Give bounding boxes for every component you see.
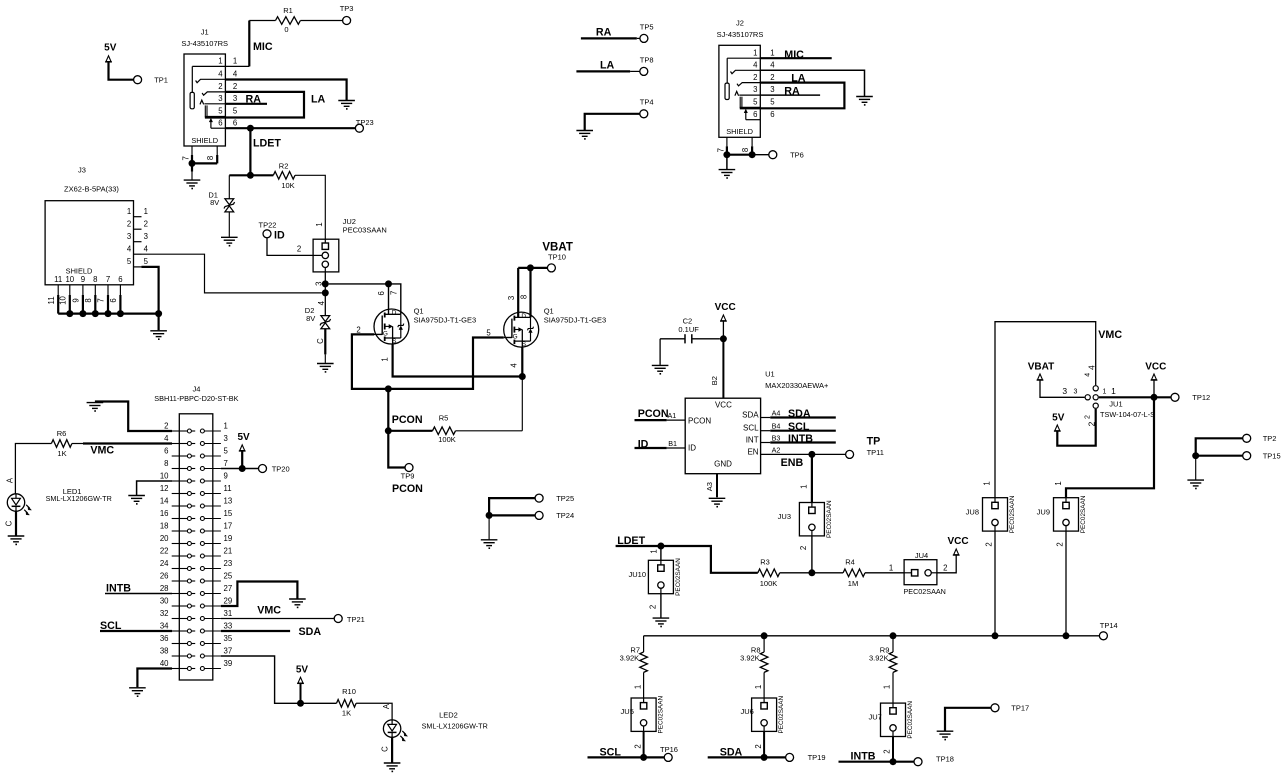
svg-text:1: 1 bbox=[770, 48, 774, 57]
pin 3 J3 bbox=[134, 241, 142, 243]
svg-text:VCC: VCC bbox=[715, 400, 732, 409]
wire R9 to JU7 bbox=[892, 672, 894, 703]
svg-text:3: 3 bbox=[315, 282, 324, 286]
connector JU1 TSW-104-07-L-S bbox=[1093, 386, 1098, 391]
junction JU2 pin3 bbox=[322, 280, 329, 287]
test point TP12 bbox=[1171, 393, 1179, 401]
pin 20 J4 bbox=[172, 543, 188, 545]
pin 6 J4 bbox=[172, 455, 188, 457]
svg-text:LDET: LDET bbox=[253, 138, 281, 150]
test point TP16 bbox=[664, 753, 672, 761]
svg-text:J4: J4 bbox=[192, 385, 200, 394]
svg-text:TP23: TP23 bbox=[356, 118, 374, 127]
wire 5V to R10 node bbox=[300, 683, 302, 703]
svg-text:TP16: TP16 bbox=[660, 745, 678, 754]
pin 15 J4 bbox=[200, 517, 204, 521]
svg-text:TP20: TP20 bbox=[272, 464, 290, 473]
test point TP4 bbox=[640, 110, 648, 118]
diode D1 8V TVS bbox=[225, 199, 234, 205]
wire J2 pin4 to ground bbox=[760, 70, 864, 96]
wire PCON to TP9 bbox=[388, 431, 405, 468]
svg-text:5: 5 bbox=[224, 446, 229, 455]
wire R10 to LED2 bbox=[356, 703, 392, 720]
pin 9 J4 bbox=[200, 479, 204, 483]
svg-text:6: 6 bbox=[218, 118, 222, 127]
wire J2 pin1 MIC bbox=[760, 57, 831, 59]
wire to ground TP24 bbox=[488, 515, 490, 539]
svg-text:2: 2 bbox=[633, 744, 642, 748]
svg-text:3: 3 bbox=[507, 296, 516, 300]
svg-text:3: 3 bbox=[224, 434, 228, 443]
svg-text:2: 2 bbox=[883, 749, 892, 753]
wire J4 pin2 to ground bbox=[95, 402, 172, 432]
svg-text:0: 0 bbox=[284, 25, 288, 34]
svg-text:C: C bbox=[316, 338, 325, 344]
svg-text:TP11: TP11 bbox=[867, 448, 884, 457]
junction R3/R4/JU3 bbox=[808, 569, 815, 576]
wire J4 pin34 SCL bbox=[100, 630, 172, 632]
svg-text:13: 13 bbox=[224, 496, 233, 505]
pin 35 J4 bbox=[200, 642, 204, 646]
pin 2 J4 bbox=[172, 430, 188, 432]
svg-text:7: 7 bbox=[716, 148, 725, 152]
svg-text:1: 1 bbox=[381, 357, 390, 361]
wire JU9 pin2 to VCC bus bbox=[1065, 531, 1067, 636]
svg-text:29: 29 bbox=[224, 596, 233, 605]
svg-text:2: 2 bbox=[754, 744, 763, 748]
svg-text:37: 37 bbox=[224, 646, 233, 655]
test point TP18 bbox=[914, 758, 922, 766]
svg-text:B4: B4 bbox=[772, 422, 781, 431]
svg-text:28: 28 bbox=[160, 584, 169, 593]
resistor R7 3.92K bbox=[640, 652, 648, 672]
svg-text:9: 9 bbox=[81, 275, 85, 284]
svg-text:21: 21 bbox=[224, 546, 233, 555]
ground J4 pin29 bbox=[289, 598, 306, 600]
wire JU8 pin2 to VCC bus bbox=[994, 531, 996, 636]
wire junction to R2 bbox=[250, 174, 273, 176]
svg-text:8: 8 bbox=[164, 459, 168, 468]
svg-text:1: 1 bbox=[1103, 388, 1107, 395]
svg-text:3: 3 bbox=[233, 94, 237, 103]
pin 16 J4 bbox=[172, 518, 188, 520]
svg-text:2: 2 bbox=[233, 82, 237, 91]
junction TP24/ground bbox=[486, 512, 493, 519]
svg-text:26: 26 bbox=[160, 571, 169, 580]
svg-text:B3: B3 bbox=[772, 433, 781, 442]
wire bus to R8 bbox=[763, 636, 765, 652]
svg-text:SDA: SDA bbox=[742, 410, 759, 419]
test point TP25 bbox=[535, 494, 543, 502]
wire J1 pin1 to R1 bbox=[225, 65, 249, 67]
resistor R8 3.92K bbox=[760, 652, 768, 672]
pin 26 J4 bbox=[172, 580, 188, 582]
svg-text:4: 4 bbox=[1084, 373, 1091, 377]
svg-text:PEC03SAAN: PEC03SAAN bbox=[343, 226, 387, 235]
svg-text:7: 7 bbox=[224, 459, 228, 468]
wire bus to R9 bbox=[892, 636, 894, 652]
pin 22 J4 bbox=[172, 555, 188, 557]
svg-text:VCC: VCC bbox=[715, 302, 736, 313]
svg-text:36: 36 bbox=[160, 634, 169, 643]
svg-text:1: 1 bbox=[753, 48, 757, 57]
svg-text:5: 5 bbox=[127, 257, 132, 266]
wire LDET down bbox=[249, 128, 251, 175]
svg-text:PCON: PCON bbox=[392, 483, 423, 495]
wire JU5 pin2 to SCL net bbox=[643, 731, 645, 757]
svg-text:32: 32 bbox=[160, 609, 169, 618]
wire J3 shield bus bbox=[58, 313, 158, 315]
svg-text:2: 2 bbox=[648, 605, 657, 609]
svg-text:2: 2 bbox=[297, 244, 301, 253]
svg-text:TP5: TP5 bbox=[640, 22, 654, 31]
wire TP4 to ground bbox=[585, 114, 640, 130]
wire JU6 pin2 to SDA net bbox=[763, 731, 765, 757]
wire INTB to TP18 bbox=[839, 761, 915, 763]
svg-text:25: 25 bbox=[224, 571, 233, 580]
test point TP9 bbox=[405, 464, 413, 472]
svg-text:TP22: TP22 bbox=[259, 221, 277, 230]
svg-text:SCL: SCL bbox=[788, 421, 810, 433]
wire VCC to U1 bbox=[722, 339, 724, 398]
svg-text:2: 2 bbox=[799, 546, 808, 550]
pin 1 J3 bbox=[134, 216, 142, 218]
pin 33 J4 bbox=[200, 629, 204, 633]
svg-text:TP1: TP1 bbox=[154, 75, 168, 84]
svg-text:VCC: VCC bbox=[947, 536, 968, 547]
svg-text:6: 6 bbox=[233, 118, 237, 127]
svg-text:5: 5 bbox=[753, 98, 758, 107]
svg-text:ZX62-B-5PA(33): ZX62-B-5PA(33) bbox=[64, 185, 119, 194]
wire RA to TP5 bbox=[581, 37, 637, 39]
svg-text:LA: LA bbox=[600, 60, 615, 72]
wire 5V to TP1 bbox=[109, 61, 134, 79]
svg-text:VBAT: VBAT bbox=[1028, 362, 1054, 373]
svg-text:2: 2 bbox=[943, 563, 947, 572]
wire U1 SCL out bbox=[761, 430, 771, 432]
junction J3 shield bbox=[79, 310, 86, 317]
jumper JU3 PEC02SAAN bbox=[799, 503, 824, 536]
svg-text:C: C bbox=[5, 520, 14, 526]
ground TP2/TP15 bbox=[1187, 479, 1204, 481]
svg-text:JU5: JU5 bbox=[621, 707, 634, 716]
wire J4 pin33 SDA bbox=[221, 630, 290, 632]
wire D2 to ground bbox=[324, 329, 326, 355]
wire TP25 bbox=[489, 498, 535, 515]
svg-text:7: 7 bbox=[106, 275, 110, 284]
ground J1 shield bbox=[184, 179, 201, 181]
junction VCC/TP12 bbox=[1151, 394, 1158, 401]
power 5V (R10) bbox=[298, 677, 303, 683]
svg-text:3.92K: 3.92K bbox=[869, 654, 889, 663]
pin 12 J4 bbox=[172, 493, 188, 495]
svg-text:TP10: TP10 bbox=[548, 252, 566, 261]
svg-text:1K: 1K bbox=[342, 709, 351, 718]
svg-text:15: 15 bbox=[224, 509, 233, 518]
wire PCON to U1 pin A1 bbox=[635, 419, 667, 421]
svg-text:35: 35 bbox=[224, 634, 233, 643]
svg-text:38: 38 bbox=[160, 646, 169, 655]
svg-text:R2: R2 bbox=[279, 161, 289, 170]
wire JU4 to VCC bbox=[937, 555, 956, 573]
ground U1 bbox=[709, 497, 726, 499]
svg-text:11: 11 bbox=[47, 296, 56, 304]
resistor R9 3.92K bbox=[889, 652, 897, 672]
svg-text:1: 1 bbox=[1054, 481, 1063, 485]
wire J3 pin4 to JU2 column bbox=[142, 254, 322, 293]
svg-text:1: 1 bbox=[1111, 386, 1116, 396]
wire LA to TP8 bbox=[576, 70, 630, 72]
svg-text:4: 4 bbox=[164, 434, 169, 443]
wire Q1b source down bbox=[521, 347, 523, 376]
svg-text:PEC02SAAN: PEC02SAAN bbox=[826, 500, 833, 538]
svg-text:1: 1 bbox=[983, 481, 992, 485]
power VCC (JU4) bbox=[954, 549, 959, 555]
wire VBAT to Q1b drain bbox=[518, 267, 547, 269]
wire TP17 to ground bbox=[945, 708, 991, 731]
svg-text:1K: 1K bbox=[57, 449, 66, 458]
svg-text:PEC02SAAN: PEC02SAAN bbox=[778, 695, 785, 733]
ground J4 pin2 bbox=[87, 402, 104, 404]
svg-text:J1: J1 bbox=[201, 27, 209, 36]
svg-text:A2: A2 bbox=[772, 445, 781, 454]
svg-text:6: 6 bbox=[109, 298, 118, 302]
wire J1 pin4 to ground bbox=[225, 80, 346, 101]
svg-text:TP17: TP17 bbox=[1011, 704, 1029, 713]
svg-text:4: 4 bbox=[144, 244, 149, 253]
svg-text:R10: R10 bbox=[342, 687, 356, 696]
pin 5 J3 bbox=[134, 266, 142, 268]
svg-text:G: G bbox=[513, 333, 518, 340]
jumper JU6 PEC02SAAN bbox=[752, 698, 777, 731]
svg-text:1: 1 bbox=[144, 207, 148, 216]
svg-text:SML-LX1206GW-TR: SML-LX1206GW-TR bbox=[422, 722, 488, 731]
wire C2 to ground bbox=[659, 339, 661, 365]
wire 5V to J4 pin7 and TP20 bbox=[241, 451, 243, 469]
svg-text:SJ-435107RS: SJ-435107RS bbox=[717, 30, 764, 39]
svg-text:SHIELD: SHIELD bbox=[66, 267, 93, 276]
pin 17 J4 bbox=[200, 529, 204, 533]
svg-text:100K: 100K bbox=[438, 435, 456, 444]
svg-text:6: 6 bbox=[377, 291, 386, 295]
svg-text:A1: A1 bbox=[668, 411, 677, 420]
svg-text:A: A bbox=[382, 703, 391, 709]
test point TP11 bbox=[846, 450, 854, 458]
test point TP5 bbox=[640, 34, 648, 42]
svg-text:SDA: SDA bbox=[299, 626, 322, 638]
pin 7 J4 bbox=[200, 467, 204, 471]
wire LED2 to ground bbox=[391, 737, 393, 762]
svg-text:S: S bbox=[392, 338, 396, 345]
wire R1 to TP3 bbox=[300, 20, 342, 22]
wire ID to U1 pin B1 bbox=[635, 447, 667, 449]
svg-text:TP25: TP25 bbox=[556, 494, 574, 503]
pin 23 J4 bbox=[200, 567, 204, 571]
svg-text:20: 20 bbox=[160, 534, 169, 543]
svg-text:VMC: VMC bbox=[90, 445, 114, 457]
wire LDET bbox=[616, 546, 758, 573]
svg-text:8V: 8V bbox=[210, 198, 219, 207]
power VCC (TP12) bbox=[1152, 374, 1157, 380]
svg-text:8: 8 bbox=[84, 298, 93, 302]
svg-text:JU8: JU8 bbox=[966, 508, 979, 517]
junction SCL bbox=[640, 754, 647, 761]
wire EN to JU3 pin1 bbox=[811, 454, 813, 502]
svg-text:RA: RA bbox=[596, 27, 612, 39]
test point TP24 bbox=[535, 511, 543, 519]
pin 38 J4 bbox=[172, 655, 188, 657]
diode D2 8V TVS bbox=[321, 316, 330, 322]
test point TP10 bbox=[547, 264, 555, 272]
svg-text:SML-LX1206GW-TR: SML-LX1206GW-TR bbox=[46, 494, 112, 503]
junction J3 shield bbox=[66, 310, 73, 317]
resistor R6 1K bbox=[51, 440, 72, 448]
svg-text:4: 4 bbox=[770, 61, 775, 70]
svg-text:5: 5 bbox=[144, 257, 149, 266]
svg-text:PCON: PCON bbox=[392, 414, 423, 426]
pin 37 J4 bbox=[200, 654, 204, 658]
pin 21 J4 bbox=[200, 554, 204, 558]
svg-text:1: 1 bbox=[754, 685, 763, 689]
svg-text:R3: R3 bbox=[760, 557, 770, 566]
junction VCC/C2 bbox=[720, 335, 727, 342]
wire VMC top bbox=[995, 322, 1096, 498]
svg-text:VMC: VMC bbox=[257, 605, 281, 617]
pin 4 J3 bbox=[134, 253, 142, 255]
svg-text:2: 2 bbox=[753, 73, 757, 82]
svg-text:1: 1 bbox=[889, 563, 893, 572]
svg-text:3: 3 bbox=[770, 85, 774, 94]
wire J4 pin10 to ground bbox=[137, 481, 172, 495]
ground J4 pin40 bbox=[129, 687, 146, 689]
svg-text:5: 5 bbox=[770, 98, 775, 107]
svg-text:4: 4 bbox=[317, 300, 326, 305]
wire J1 pin3 RA bbox=[225, 103, 267, 105]
pin 34 J4 bbox=[172, 630, 188, 632]
svg-text:4: 4 bbox=[218, 70, 223, 79]
pin 5 J4 bbox=[200, 454, 204, 458]
svg-text:1: 1 bbox=[233, 57, 237, 66]
ground J1 pin4 bbox=[338, 100, 355, 102]
pin 27 J4 bbox=[200, 592, 204, 596]
svg-text:TP: TP bbox=[867, 436, 881, 448]
test point TP3 bbox=[343, 17, 351, 25]
pin 8 J4 bbox=[172, 468, 188, 470]
svg-text:TP18: TP18 bbox=[936, 755, 954, 764]
svg-text:S: S bbox=[522, 341, 526, 348]
svg-text:31: 31 bbox=[224, 609, 233, 618]
svg-text:SCL: SCL bbox=[743, 424, 759, 433]
svg-text:3: 3 bbox=[1062, 386, 1067, 396]
LED LED1 SML-LX1206GW-TR bbox=[7, 494, 24, 511]
wire JU1 pin1 to TP12 bbox=[1099, 396, 1171, 398]
junction R9 bus bbox=[890, 632, 897, 639]
svg-text:4: 4 bbox=[127, 244, 132, 253]
svg-text:3: 3 bbox=[127, 232, 131, 241]
svg-text:TP12: TP12 bbox=[1192, 393, 1210, 402]
svg-text:6: 6 bbox=[770, 110, 774, 119]
svg-text:4: 4 bbox=[233, 70, 238, 79]
wire 5V to JU1 pin2 bbox=[1057, 409, 1095, 446]
svg-text:5V: 5V bbox=[237, 432, 250, 443]
svg-text:10K: 10K bbox=[281, 181, 294, 190]
svg-text:SIA975DJ-T1-GE3: SIA975DJ-T1-GE3 bbox=[414, 316, 477, 325]
test point TP17 bbox=[991, 704, 999, 712]
svg-text:A3: A3 bbox=[705, 482, 714, 491]
svg-text:JU4: JU4 bbox=[915, 551, 928, 560]
svg-text:2: 2 bbox=[1084, 415, 1091, 419]
svg-text:VMC: VMC bbox=[1098, 329, 1122, 341]
junction LDET/JU10 bbox=[657, 543, 664, 550]
svg-text:2: 2 bbox=[127, 219, 131, 228]
svg-text:R4: R4 bbox=[845, 557, 855, 566]
svg-text:PEC02SAAN: PEC02SAAN bbox=[1080, 495, 1087, 533]
jumper JU2 PEC03SAAN bbox=[313, 239, 339, 272]
wire TP15 bbox=[1196, 455, 1243, 457]
svg-text:40: 40 bbox=[160, 659, 169, 668]
svg-text:5: 5 bbox=[486, 328, 491, 337]
svg-text:22: 22 bbox=[160, 546, 169, 555]
svg-text:23: 23 bbox=[224, 559, 233, 568]
svg-text:1: 1 bbox=[883, 685, 892, 689]
capacitor C2 0.1UF bbox=[692, 338, 720, 340]
svg-text:TP24: TP24 bbox=[556, 511, 574, 520]
wire R7 to JU5 bbox=[643, 672, 645, 698]
ground C2 bbox=[652, 364, 669, 366]
wire TP2 bbox=[1196, 438, 1243, 455]
svg-text:JU3: JU3 bbox=[778, 512, 791, 521]
jumper JU10 PEC02SAAN bbox=[648, 560, 673, 593]
wire U1 EN to TP11 bbox=[761, 453, 846, 455]
svg-text:3: 3 bbox=[753, 85, 757, 94]
junction INTB bbox=[890, 758, 897, 765]
svg-text:VCC: VCC bbox=[1145, 362, 1166, 373]
ground J2 pin4 bbox=[856, 96, 873, 98]
pin 14 J4 bbox=[172, 505, 188, 507]
test point TP6 bbox=[769, 151, 777, 159]
svg-text:SBH11-PBPC-D20-ST-BK: SBH11-PBPC-D20-ST-BK bbox=[154, 394, 238, 403]
resistor R4 1M bbox=[843, 569, 865, 577]
svg-text:1: 1 bbox=[127, 207, 131, 216]
svg-text:14: 14 bbox=[160, 496, 169, 505]
junction J3 wire at JU2 column bbox=[322, 289, 329, 296]
junction Q1 drain bbox=[385, 280, 392, 287]
pin 30 J4 bbox=[172, 605, 188, 607]
wire J4 pin28 INTB bbox=[105, 593, 172, 595]
ground J3 bbox=[150, 330, 167, 332]
svg-text:16: 16 bbox=[160, 509, 169, 518]
wire junction to D1 bbox=[229, 174, 250, 176]
junction J3 shield bbox=[92, 310, 99, 317]
junction J1 pin6 bbox=[247, 125, 254, 132]
junction J2 shield right bbox=[749, 151, 756, 158]
wire R3 to R4 bbox=[780, 572, 843, 574]
svg-text:PEC02SAAN: PEC02SAAN bbox=[904, 587, 946, 596]
svg-text:9: 9 bbox=[72, 298, 81, 302]
pin 4 J4 bbox=[172, 443, 188, 445]
junction LDET/R2/D1 bbox=[247, 172, 254, 179]
wire J4 pin37 to R10 bbox=[221, 656, 337, 703]
power 5V (JU1) bbox=[1055, 425, 1060, 431]
svg-text:C: C bbox=[381, 746, 390, 752]
jumper JU8 PEC02SAAN bbox=[983, 498, 1008, 531]
svg-text:39: 39 bbox=[224, 659, 233, 668]
power VCC (C2) bbox=[721, 315, 726, 321]
wire R6 to LED1 bbox=[15, 444, 51, 494]
junction TP15/ground bbox=[1192, 452, 1199, 459]
svg-text:1: 1 bbox=[218, 57, 222, 66]
svg-text:5: 5 bbox=[233, 107, 238, 116]
